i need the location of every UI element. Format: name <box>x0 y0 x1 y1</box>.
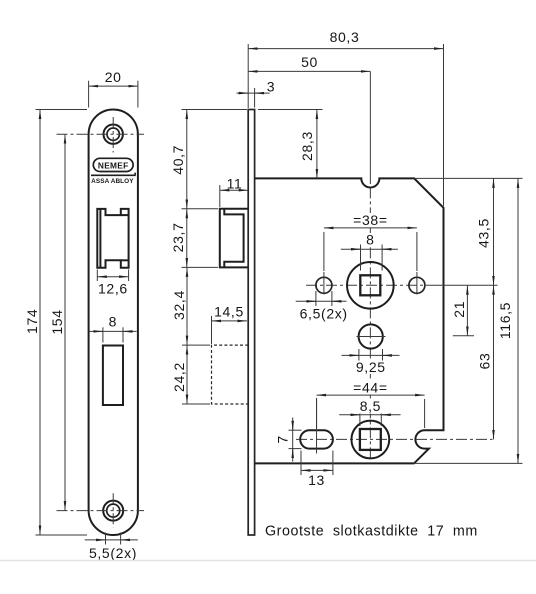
vertical centerline through spindle axis <box>369 71 371 184</box>
right 6.5 hole <box>409 277 425 293</box>
NEMEF logo oval <box>93 158 133 171</box>
dim 28,3 <box>258 110 323 179</box>
dim 40,7 <box>170 110 247 209</box>
svg-text:116,5: 116,5 <box>497 302 513 339</box>
dim 8,5 <box>339 398 400 426</box>
svg-text:8: 8 <box>366 232 374 248</box>
dim 7 <box>274 418 301 462</box>
top screw hole <box>104 125 123 144</box>
bottom page separator line <box>0 560 536 562</box>
svg-text:20: 20 <box>105 69 122 85</box>
svg-text:3: 3 <box>267 79 275 95</box>
ASSA ABLOY rule <box>91 173 135 176</box>
svg-text:ASSA ABLOY: ASSA ABLOY <box>91 178 134 185</box>
svg-text:23,7: 23,7 <box>170 222 186 252</box>
right 6.5 hole vertical crosshair <box>416 272 418 295</box>
svg-text:7: 7 <box>274 435 290 443</box>
dim 13 <box>301 451 333 489</box>
oval vertical crosshair <box>316 398 318 454</box>
dim 23,7 <box>170 209 218 268</box>
svg-text:174: 174 <box>24 309 40 334</box>
dim 21 <box>451 285 474 336</box>
deadbolt cutout front view <box>103 346 123 406</box>
faceplate front view outline <box>89 110 138 536</box>
dim 6,5(2x) <box>296 291 348 322</box>
cylinder hole 9.25 <box>359 324 383 348</box>
bottom screw hole centerlines <box>57 493 145 527</box>
dim 5,5(2x) <box>85 533 138 562</box>
svg-text:14,5: 14,5 <box>214 304 244 320</box>
svg-text:154: 154 <box>49 309 65 334</box>
svg-text:50: 50 <box>301 54 318 70</box>
dim 50 <box>248 54 370 71</box>
faceplate side view strip <box>248 110 254 536</box>
svg-text:24,2: 24,2 <box>171 362 187 392</box>
svg-text:32,4: 32,4 <box>171 290 187 320</box>
bottom oval hole <box>300 430 333 448</box>
svg-text:6,5(2x): 6,5(2x) <box>300 306 348 322</box>
dim 43,5 <box>476 178 494 285</box>
svg-text:28,3: 28,3 <box>299 131 315 161</box>
dim 8 deadbolt front <box>90 314 137 343</box>
svg-text:13: 13 <box>308 472 325 488</box>
dim 14,5 <box>212 304 248 345</box>
bottom follower <box>351 421 389 459</box>
top screw hole centerlines <box>57 117 145 153</box>
dim =38= <box>324 212 417 271</box>
dim 154 <box>49 134 65 510</box>
dim 12,6 <box>97 270 128 297</box>
svg-text:43,5: 43,5 <box>476 218 492 248</box>
deadbolt side view dashed <box>212 345 249 404</box>
dim 116,5 <box>414 178 523 463</box>
dim 80,3 <box>248 29 443 206</box>
cylinder hole horizontal crosshair <box>357 336 386 338</box>
left 6.5 hole vertical crosshair <box>323 272 325 295</box>
svg-text:8: 8 <box>109 314 117 330</box>
dim 11 <box>220 176 248 207</box>
svg-text:63: 63 <box>477 353 493 370</box>
dim 20 <box>89 69 138 108</box>
svg-text:40,7: 40,7 <box>170 145 186 175</box>
dim 8 spindle <box>341 232 398 271</box>
dim 174 <box>24 110 87 536</box>
svg-text:12,6: 12,6 <box>98 281 128 297</box>
horizontal centerline bottom row <box>296 438 493 440</box>
svg-text:NEMEF: NEMEF <box>98 160 129 170</box>
dim 63 <box>477 285 494 439</box>
dim =44= <box>317 379 425 428</box>
svg-text:=38=: =38= <box>353 212 388 228</box>
svg-text:21: 21 <box>451 301 467 318</box>
dim 9,25 <box>342 349 400 375</box>
dim 32,4 <box>171 267 210 345</box>
svg-text:11: 11 <box>227 176 243 192</box>
svg-text:80,3: 80,3 <box>330 29 360 45</box>
spindle follower <box>347 262 394 309</box>
svg-text:8,5: 8,5 <box>360 398 381 414</box>
left 6.5 hole <box>316 277 332 293</box>
svg-text:Grootste slotkastdikte 17 mm: Grootste slotkastdikte 17 mm <box>265 524 478 540</box>
horizontal centerline through follower <box>306 284 433 286</box>
latch cutout front view <box>97 209 128 268</box>
svg-text:9,25: 9,25 <box>356 359 386 375</box>
svg-text:=44=: =44= <box>353 379 388 395</box>
lock case outline side view <box>255 178 444 463</box>
bottom screw hole <box>103 501 123 521</box>
svg-text:5,5(2x): 5,5(2x) <box>89 545 137 561</box>
latch side view <box>220 209 248 268</box>
dim 24,2 <box>171 345 210 404</box>
dim 3 <box>237 79 276 108</box>
